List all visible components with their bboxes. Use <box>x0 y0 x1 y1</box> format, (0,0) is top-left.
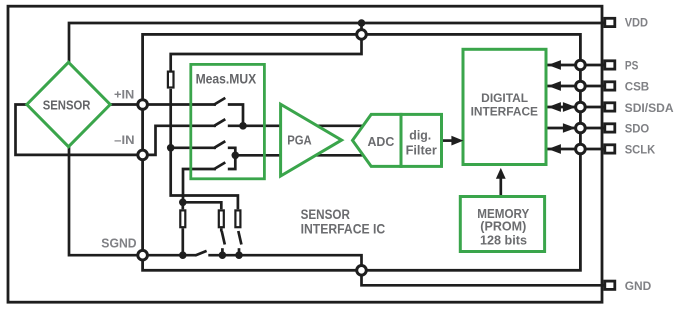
sensor diamond <box>27 62 110 146</box>
arrowhead PS <box>548 60 561 70</box>
wire S3 output <box>228 148 236 156</box>
svg-text:INTERFACE IC: INTERFACE IC <box>301 221 386 236</box>
svg-text:PS: PS <box>625 58 639 72</box>
resistor R3 <box>235 210 240 227</box>
pin GND <box>605 281 615 289</box>
svg-text:dig.: dig. <box>409 127 431 142</box>
svg-text:CSB: CSB <box>625 79 650 93</box>
wire VDD rail to SGND loop <box>69 23 604 255</box>
svg-text:SGND: SGND <box>101 236 136 250</box>
pad +IN <box>138 100 148 110</box>
wire SGND east to GND pin <box>208 255 603 285</box>
svg-text:(PROM): (PROM) <box>480 219 526 234</box>
wire SDO pin <box>547 127 604 130</box>
pad -IN <box>138 150 148 160</box>
dig. Filter block <box>401 114 442 166</box>
svg-text:ADC: ADC <box>368 134 395 149</box>
arrowhead SCLK <box>548 144 561 154</box>
arrowhead filter to DI <box>451 136 463 146</box>
pin SCLK <box>605 145 615 153</box>
junction S6 bottom <box>219 251 227 259</box>
wire S4 output <box>228 155 236 169</box>
svg-text:VDD: VDD <box>625 16 649 30</box>
svg-text:–IN: –IN <box>114 133 134 147</box>
wire -IN <box>16 105 217 155</box>
pin SDI/SDA <box>605 103 615 111</box>
pad PS <box>576 60 586 70</box>
wire node B to PGA <box>235 154 368 157</box>
pad top VDD <box>357 30 367 40</box>
svg-text:PGA: PGA <box>287 134 312 148</box>
svg-text:DIGITAL: DIGITAL <box>481 91 528 105</box>
wire R2 bottom stub <box>220 228 223 231</box>
wire CSB pin <box>547 85 604 88</box>
pad CSB <box>576 81 586 91</box>
junction bias row3 <box>167 144 175 152</box>
svg-text:128 bits: 128 bits <box>480 233 527 248</box>
wire R1 bottom <box>181 228 184 255</box>
DIGITAL INTERFACE block <box>463 49 546 164</box>
pin SDO <box>605 124 615 132</box>
wire SDI/SDA pin <box>547 106 604 109</box>
pin PS <box>605 61 615 69</box>
junction R1 bottom <box>179 251 187 259</box>
pad SGND <box>138 250 148 260</box>
op-amp PGA <box>281 104 342 176</box>
wire PS pin <box>547 64 604 67</box>
resistor R2 <box>219 210 224 227</box>
MEMORY block <box>460 197 544 252</box>
Meas.MUX box <box>191 64 265 178</box>
svg-text:SDO: SDO <box>625 122 650 136</box>
resistor Rbias <box>168 72 174 88</box>
pin CSB <box>605 82 615 90</box>
svg-text:SENSOR: SENSOR <box>43 97 91 112</box>
svg-text:INTERFACE: INTERFACE <box>471 105 539 119</box>
junction R1 top <box>179 199 187 207</box>
wire bias column <box>171 89 238 209</box>
pad SDI/SDA <box>576 102 586 112</box>
switch S1 blade <box>214 98 226 105</box>
wire S2 output to PGA <box>228 124 368 127</box>
junction S7 bottom <box>235 251 243 259</box>
pad SDO <box>576 123 586 133</box>
junction VDD rail <box>358 19 366 27</box>
wire memory to digital interface <box>499 179 502 197</box>
pad bottom GND <box>357 266 367 276</box>
wire S3 input feed <box>171 146 216 149</box>
ADC block <box>353 114 402 166</box>
switch S6 blade <box>222 231 225 245</box>
svg-text:Meas.MUX: Meas.MUX <box>196 71 257 86</box>
switch S5 blade (SGND line) <box>195 251 206 256</box>
arrowhead SDO <box>563 123 576 133</box>
resistor R1 <box>180 210 185 227</box>
arrowhead memory to DI <box>496 168 506 179</box>
svg-text:GND: GND <box>625 279 652 293</box>
svg-text:Filter: Filter <box>406 142 437 157</box>
arrowhead SDI/SDA right <box>563 102 576 112</box>
wire filter to digital interface <box>442 139 453 142</box>
wire +IN <box>110 103 217 106</box>
wire bias from VDD rail <box>171 23 362 71</box>
wire S4 input feed <box>183 169 216 202</box>
svg-text:SENSOR: SENSOR <box>301 207 351 222</box>
pad SCLK <box>576 144 586 154</box>
switch S3 blade <box>214 141 226 148</box>
IC boundary <box>143 34 581 270</box>
pin VDD <box>605 18 615 26</box>
arrowhead SDI/SDA left <box>548 102 561 112</box>
svg-text:+IN: +IN <box>114 87 134 101</box>
svg-text:SCLK: SCLK <box>625 143 656 157</box>
wire S1 output <box>228 105 243 126</box>
svg-text:SDI/SDA: SDI/SDA <box>625 101 674 115</box>
wire SCLK pin <box>547 148 604 151</box>
switch S7 blade <box>238 231 241 245</box>
arrowhead CSB <box>548 81 561 91</box>
wire R2 feed <box>183 202 222 209</box>
junction node A <box>239 122 247 130</box>
wire R1 top <box>181 202 184 209</box>
switch S4 blade <box>214 162 226 169</box>
switch S2 blade <box>214 119 226 126</box>
junction node B <box>232 152 240 160</box>
